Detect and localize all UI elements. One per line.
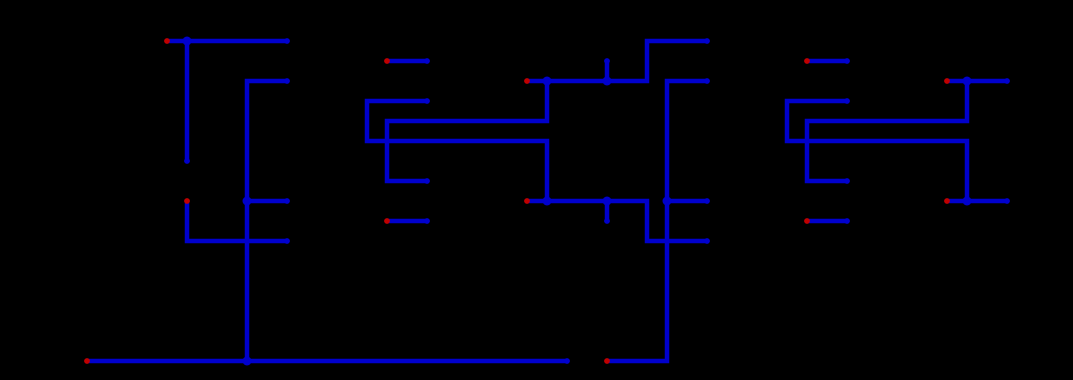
pin P12	[804, 218, 810, 224]
endpoint dot W9 right	[424, 58, 430, 64]
endpoint dot W7 right	[284, 198, 290, 204]
wire W19 S-wire middle module	[387, 81, 547, 181]
wire W22 Z-wire right module	[787, 101, 967, 201]
endpoint dot W18 right	[704, 198, 710, 204]
wire W1 net A top-left horizontal	[167, 39, 287, 44]
wire W18 stub right from node J9	[667, 199, 707, 204]
pin P10	[944, 78, 950, 84]
endpoint dot W6 right	[284, 238, 290, 244]
pin P9	[804, 58, 810, 64]
node J11	[963, 197, 972, 206]
endpoint dot W20 right	[424, 218, 430, 224]
endpoint dot W23 right	[1004, 78, 1010, 84]
wire W25 right module output bottom	[947, 199, 1007, 204]
node J7	[543, 77, 552, 86]
wire W14 output jog up	[527, 41, 707, 81]
node J8	[603, 77, 612, 86]
pin P7	[524, 78, 530, 84]
pin P4	[384, 58, 390, 64]
pin P8	[384, 218, 390, 224]
wire W3-W4 gate input stub and long vertical x=247	[247, 81, 287, 361]
node J10	[963, 77, 972, 86]
endpoint dot W25 right	[1004, 198, 1010, 204]
endpoint dot W1 right	[284, 38, 290, 44]
wire W20 stub middle module bottom	[387, 219, 427, 224]
endpoint dot W16 right	[704, 78, 710, 84]
endpoint dot W26 right	[844, 218, 850, 224]
pin P11	[944, 198, 950, 204]
wire W26 stub right module bottom	[807, 219, 847, 224]
pin P6	[604, 358, 610, 364]
endpoint dot W24 cap	[844, 178, 850, 184]
pin P5	[524, 198, 530, 204]
endpoint dot W19 cap	[424, 178, 430, 184]
wire W15 stub up from node J8	[605, 61, 610, 81]
endpoint dot W10 cap	[424, 98, 430, 104]
pin P1	[164, 38, 170, 44]
endpoint dot W11 right	[704, 238, 710, 244]
node J5	[603, 197, 612, 206]
endpoint dot bus right	[564, 358, 570, 364]
endpoint dot W15 top	[604, 58, 610, 64]
node J1	[183, 37, 192, 46]
endpoint dot W3 right	[284, 78, 290, 84]
pin P3	[84, 358, 90, 364]
wire W5-W6 pin to gate input	[187, 201, 287, 241]
node J9	[663, 197, 672, 206]
wire W21 stub right module top	[807, 59, 847, 64]
endpoint dot W21 right	[844, 58, 850, 64]
wire W24 S-wire right module	[807, 81, 967, 181]
wire W7 stub from node J2	[247, 199, 287, 204]
wire W23 right module output top	[947, 79, 1007, 84]
wire W8 bottom bus	[87, 359, 567, 364]
wire W16-W17 stub right and vertical x=667	[667, 81, 707, 201]
wire W13 riser to bottom pin	[607, 201, 667, 361]
node J2	[243, 197, 252, 206]
wire W2 vertical from node J1	[185, 41, 190, 161]
wire W12 stub down from node J5	[605, 201, 610, 221]
wire W10 Z-wire middle module	[367, 101, 547, 201]
endpoint dot W2 bottom	[184, 158, 190, 164]
wire W11 middle module output jog	[527, 201, 707, 241]
pin P2	[184, 198, 190, 204]
endpoint dot W12 bottom	[604, 218, 610, 224]
wire W9 stub middle module top	[387, 59, 427, 64]
endpoint dot W22 cap	[844, 98, 850, 104]
node J3	[243, 357, 252, 366]
endpoint dot W14 right	[704, 38, 710, 44]
node J4	[543, 197, 552, 206]
